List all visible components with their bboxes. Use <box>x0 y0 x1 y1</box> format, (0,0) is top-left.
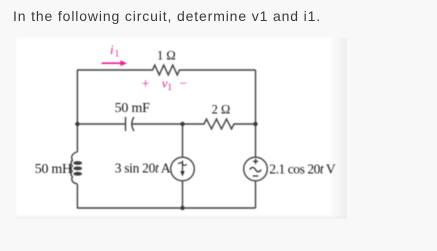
svg-text:2 Ω: 2 Ω <box>212 103 231 117</box>
svg-text:50 mH: 50 mH <box>35 162 72 177</box>
svg-text:2.1 cos 20t V: 2.1 cos 20t V <box>269 161 336 176</box>
svg-text:50 mF: 50 mF <box>115 101 151 116</box>
svg-text:+: + <box>142 77 150 92</box>
svg-text:−: − <box>180 76 187 91</box>
svg-text:3 sin 20t A: 3 sin 20t A <box>115 161 171 176</box>
svg-text:1 Ω: 1 Ω <box>157 48 176 62</box>
svg-text:i: i <box>110 42 114 57</box>
svg-text:1: 1 <box>167 83 172 93</box>
svg-text:1: 1 <box>115 49 120 59</box>
